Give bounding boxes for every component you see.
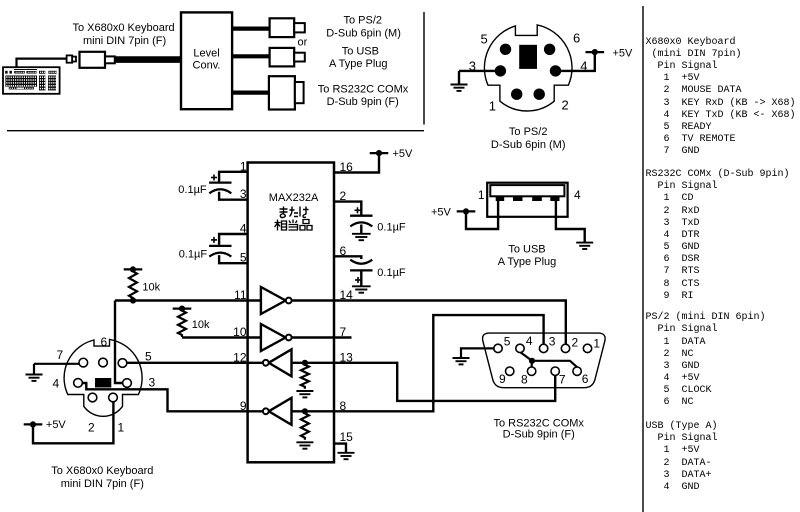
svg-text:A Type Plug: A Type Plug	[498, 256, 557, 268]
DIN6 pin 2	[534, 89, 545, 100]
wire junction to DSub pin6	[532, 361, 577, 367]
label 0.1uF C3	[377, 221, 406, 233]
svg-text:To USB: To USB	[508, 243, 545, 255]
DSub pin labels	[499, 334, 600, 387]
svg-text:4: 4	[526, 334, 533, 348]
wire USB pin4 to ground	[556, 198, 585, 242]
svg-text:D-Sub 9pin (F): D-Sub 9pin (F)	[327, 96, 399, 108]
wire DSub pin4 to junction	[521, 352, 532, 360]
svg-text:6: 6	[101, 335, 108, 349]
C3 ground lead	[360, 225, 362, 234]
DIN7 pin 3	[123, 379, 132, 388]
label or	[298, 37, 308, 49]
svg-text:mini DIN 7pin (F): mini DIN 7pin (F)	[61, 478, 144, 490]
svg-text:4: 4	[53, 377, 60, 391]
DIN7 pin 2	[88, 393, 97, 402]
R2IN pulldown resistor	[296, 408, 313, 449]
DIN7 pin 6	[99, 358, 108, 367]
DIN7 pin 4	[74, 379, 83, 388]
ground (DSub pin5)	[453, 358, 470, 364]
IC right pin numbers	[340, 160, 354, 444]
junction pin11/R pullup	[130, 297, 136, 303]
cable 1 (PS/2)	[232, 27, 270, 31]
divider vertical right column	[642, 6, 644, 512]
DSub pin 2	[561, 344, 569, 352]
wire junction to DSub pin8	[530, 361, 533, 367]
DSub pin 4	[516, 344, 524, 352]
wire DIN7 pin1 to +5V	[33, 402, 113, 444]
USB pin labels	[478, 188, 581, 202]
+5V rail (DIN7 pin1)	[24, 421, 43, 427]
svg-text:4: 4	[574, 188, 581, 202]
+5V rail (R2 top)	[173, 306, 192, 312]
divider vertical short	[423, 12, 425, 125]
capacitor C1 0.1uF	[209, 175, 231, 194]
wire DSub pin5 to ground	[461, 348, 494, 357]
svg-text:8: 8	[521, 373, 528, 387]
wire DIN6 pin3 to ground	[459, 71, 495, 85]
USB plug	[270, 48, 305, 67]
capacitor C3 0.1uF	[350, 207, 372, 226]
svg-text:mini DIN 7pin (F): mini DIN 7pin (F)	[83, 35, 166, 47]
+5V rail (pin16)	[370, 150, 389, 156]
svg-text:+5V: +5V	[393, 148, 414, 160]
IC pin4 stub	[219, 234, 248, 245]
DSub pin 9	[506, 367, 514, 375]
R1IN pulldown resistor	[296, 360, 313, 398]
label To USB A Type Plug	[329, 46, 388, 70]
capacitor C4 0.1uF	[350, 260, 372, 283]
IC U1 MAX232A box	[248, 163, 334, 463]
DIN6 pin labels	[469, 31, 588, 114]
DIN7 pin 5	[118, 359, 127, 368]
svg-text:2: 2	[562, 98, 569, 113]
wire pin12 to DIN7 pin5	[127, 362, 263, 364]
svg-text:2: 2	[88, 421, 95, 435]
wire pin8 to DSub pin3	[292, 315, 544, 411]
IC pin2 stub	[334, 202, 361, 215]
DIN6 pin 5	[500, 44, 511, 55]
DIN7 pin 7	[79, 358, 88, 367]
label To RS232C COMx D-Sub 9pin (F)	[493, 417, 584, 440]
svg-text:5: 5	[145, 350, 152, 364]
junction DSub 4-8-6	[529, 358, 535, 364]
DIN7 key slot	[95, 378, 111, 388]
PS/2 plug	[270, 18, 305, 37]
svg-text:D-Sub 6pin (M): D-Sub 6pin (M)	[326, 28, 401, 40]
label +5V (DIN7)	[46, 419, 67, 431]
svg-text:3: 3	[149, 376, 156, 390]
label Level Conv.	[193, 48, 221, 72]
svg-text:10k: 10k	[192, 319, 210, 331]
receiver R2 (pin8->9)	[263, 398, 292, 425]
driver T2 (pin10->7)	[261, 324, 292, 351]
resistor R1 10k pullup	[129, 269, 137, 300]
label +5V (DIN6)	[613, 48, 634, 60]
USB A plug outline	[487, 183, 567, 217]
DIN6 key slot	[519, 45, 537, 69]
svg-text:7: 7	[57, 348, 64, 362]
DSub pin 6	[573, 367, 581, 375]
svg-text:0.1µF: 0.1µF	[377, 221, 406, 233]
+5V rail (USB)	[457, 208, 476, 214]
wire pin11 line	[115, 299, 261, 301]
thick cable to level converter	[115, 56, 181, 63]
mini-DIN plug body	[80, 52, 115, 68]
pinout list: USB	[646, 421, 718, 494]
svg-text:5: 5	[504, 335, 511, 349]
receiver R1 (pin13->12)	[263, 349, 292, 376]
+5V rail (R1 top)	[124, 266, 143, 272]
svg-text:Level: Level	[193, 48, 219, 60]
USB contacts	[496, 196, 560, 201]
wire pin13 to DSub pin7	[292, 363, 556, 401]
label +5V (pin16)	[393, 148, 414, 160]
svg-text:15: 15	[340, 430, 354, 444]
IC pin16 to +5V	[334, 153, 379, 172]
svg-text:0.1µF: 0.1µF	[179, 249, 208, 261]
svg-text:7: 7	[559, 373, 566, 387]
ground (DIN7 pin7)	[26, 375, 43, 381]
label 10k R2	[192, 319, 210, 331]
resistor R2 10k pullup	[178, 309, 186, 337]
svg-text:3: 3	[549, 335, 556, 349]
label To X680x0 Keyboard (bottom)	[51, 465, 153, 490]
svg-text:A Type Plug: A Type Plug	[329, 58, 388, 70]
C4 ground lead	[360, 272, 362, 287]
DSub pin 1	[583, 344, 591, 352]
label To PS/2 D-Sub 6pin (M) below DIN6	[491, 126, 566, 151]
label matawa (kanji)	[280, 207, 309, 218]
svg-text:0.1µF: 0.1µF	[178, 184, 207, 196]
wire DIN7 pin7 to ground	[34, 364, 79, 375]
IC left pin numbers	[233, 159, 247, 412]
pinout list: X680x0 Keyboard	[646, 37, 796, 159]
wire pin9 to DIN7 pin4	[82, 383, 263, 411]
label To USB A Type Plug (mid)	[498, 243, 557, 267]
cable 3 (RS232C)	[232, 90, 269, 94]
divider horizontal	[7, 130, 424, 132]
PS/2 mini-DIN 6pin connector outline	[484, 25, 572, 111]
DSub pin 3	[539, 344, 547, 352]
svg-text:1: 1	[478, 188, 485, 202]
pinout list: RS232C COMx	[646, 169, 790, 303]
wire keyboard to plug	[17, 59, 67, 68]
svg-text:2: 2	[572, 336, 579, 350]
svg-text:+5V: +5V	[46, 419, 67, 431]
ground (DIN6 pin3)	[451, 85, 468, 91]
wire pin11 to DIN7 pin3	[115, 301, 122, 384]
label To X680x0 Keyboard (top)	[73, 22, 175, 47]
DSub pin 8	[527, 367, 535, 375]
svg-text:or: or	[298, 37, 308, 49]
DIN6 pin 1	[511, 89, 522, 100]
svg-text:To RS232C COMx: To RS232C COMx	[318, 84, 409, 96]
C2 to pin5 stub	[219, 255, 248, 263]
mini-DIN plug small	[67, 55, 76, 62]
wire pin10 line	[182, 336, 261, 338]
label To RS232C COMx D-Sub 9pin (F)	[318, 84, 409, 108]
capacitor C2 0.1uF	[209, 237, 231, 257]
svg-text:To PS/2: To PS/2	[344, 15, 383, 27]
svg-text:To USB: To USB	[342, 46, 379, 58]
C1 to pin3 stub	[219, 192, 248, 200]
driver T1 (pin11->14)	[261, 287, 292, 314]
ground (C4)	[352, 286, 371, 292]
ground (pin15)	[338, 453, 355, 459]
svg-text:D-Sub 6pin (M): D-Sub 6pin (M)	[491, 139, 566, 151]
label 0.1uF C4	[377, 267, 406, 279]
DIN7 pin 1	[109, 393, 118, 402]
X680x0 keyboard mini-DIN 7pin connector outline	[64, 339, 142, 416]
svg-text:10k: 10k	[142, 281, 160, 293]
label soutouhin (kanji)	[275, 220, 313, 231]
wire USB pin1 to +5V	[466, 198, 498, 229]
keyboard icon (X680x0 keyboard)	[3, 67, 60, 94]
svg-text:To X680x0 Keyboard: To X680x0 Keyboard	[51, 465, 153, 477]
DIN6 pin 6	[544, 44, 555, 55]
ground (C3)	[352, 234, 371, 240]
svg-text:1: 1	[118, 421, 125, 435]
svg-text:Conv.: Conv.	[193, 59, 221, 71]
DIN7 pin labels	[53, 335, 156, 435]
wire DIN6 pin4 to +5V	[561, 52, 595, 71]
DSub pin 7	[551, 367, 559, 375]
DSub pin 5	[494, 344, 502, 352]
cable 2 (USB)	[232, 54, 270, 58]
+5V rail (DIN6 pin4)	[586, 49, 605, 55]
pinout list: PS/2	[646, 312, 766, 409]
svg-text:To X680x0 Keyboard: To X680x0 Keyboard	[73, 22, 175, 34]
label 10k R1	[142, 281, 160, 293]
svg-text:1: 1	[489, 98, 496, 113]
svg-text:6: 6	[582, 372, 589, 386]
svg-text:To PS/2: To PS/2	[509, 126, 548, 138]
svg-text:MAX232A: MAX232A	[269, 192, 319, 204]
svg-text:+5V: +5V	[613, 48, 634, 60]
label 0.1uF C1	[178, 184, 207, 196]
label +5V (USB)	[431, 207, 452, 219]
USB A plug inner	[490, 185, 564, 196]
level converter box	[181, 12, 232, 109]
IC pin1 stub	[219, 172, 248, 182]
svg-text:To RS232C COMx: To RS232C COMx	[493, 417, 584, 429]
label MAX232A	[269, 192, 319, 204]
DIN6 pin 4	[550, 65, 561, 76]
RS232C plug	[269, 76, 304, 109]
svg-text:1: 1	[593, 337, 600, 351]
svg-text:+5V: +5V	[431, 207, 452, 219]
svg-text:D-Sub 9pin (F): D-Sub 9pin (F)	[503, 429, 575, 441]
wire pin7 stub	[292, 336, 352, 338]
wire pin14 to DSub pin2	[292, 301, 566, 345]
RS232C D-Sub 9pin connector outline	[483, 333, 606, 388]
DIN6 pin 3	[495, 65, 506, 76]
svg-text:9: 9	[499, 372, 506, 386]
IC pin15 to ground	[334, 444, 346, 453]
svg-text:0.1µF: 0.1µF	[377, 267, 406, 279]
svg-text:6: 6	[573, 31, 580, 46]
label 0.1uF C2	[179, 249, 208, 261]
label To PS/2 D-Sub 6pin (M)	[326, 15, 401, 40]
IC pin6 stub	[334, 256, 361, 259]
ground (USB)	[576, 243, 593, 249]
svg-text:5: 5	[481, 32, 488, 47]
